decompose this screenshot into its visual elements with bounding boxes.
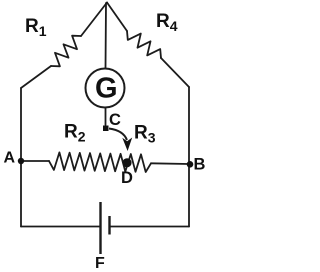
svg-text:B: B: [194, 155, 206, 173]
wire bottom left to battery: [21, 226, 100, 228]
jockey arrow C to D: [109, 129, 127, 141]
svg-text:R2: R2: [64, 122, 86, 145]
svg-text:R1: R1: [25, 16, 47, 39]
svg-text:G: G: [95, 72, 118, 104]
wire apex down to galvanometer: [105, 3, 108, 68]
galvanometer U G circle: [86, 69, 125, 108]
resistor R4: [127, 31, 161, 58]
node A dot: [18, 158, 24, 164]
svg-text:R4: R4: [156, 11, 178, 34]
svg-text:D: D: [121, 169, 133, 187]
resistor R1: [51, 36, 81, 67]
node B dot: [187, 161, 194, 168]
wire R4 lower lead to right vertex: [161, 58, 189, 87]
node C square: [103, 126, 109, 132]
wire left vertical L to bottom-left corner: [20, 88, 22, 227]
wire battery to bottom right: [110, 226, 189, 228]
wire R1 lower lead to left vertex: [21, 66, 51, 88]
node D dot: [122, 158, 131, 167]
wire apex to left vertex upper lead: [81, 3, 107, 37]
svg-text:C: C: [109, 111, 121, 129]
battery F short plate: [108, 216, 110, 235]
wire right vertical to bottom-right corner: [188, 87, 190, 227]
wire node A lead into resistor: [21, 160, 49, 162]
svg-text:F: F: [95, 255, 105, 272]
wire resistor to node B: [151, 162, 189, 165]
resistor R2: [49, 152, 125, 171]
wire galvanometer to node C: [105, 108, 107, 125]
svg-text:R3: R3: [134, 123, 156, 146]
wire apex to right upper lead: [107, 3, 127, 32]
svg-text:A: A: [4, 149, 16, 166]
battery F long plate: [99, 202, 101, 254]
resistor R3: [125, 154, 151, 172]
jockey arrowhead: [122, 138, 132, 152]
